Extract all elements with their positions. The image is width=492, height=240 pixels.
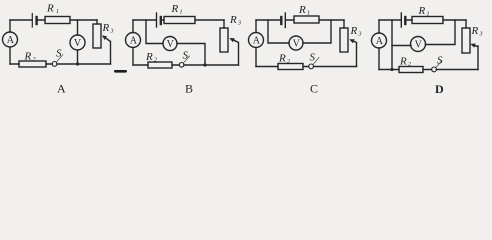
svg-text:S: S: [310, 52, 316, 64]
svg-text:R: R: [145, 51, 153, 63]
switch blade D: [436, 61, 442, 68]
wire right B: [238, 43, 240, 66]
wire right C: [356, 43, 358, 67]
svg-text:S: S: [56, 48, 62, 60]
battery D thick plate: [404, 17, 406, 24]
battery B thick plate: [160, 17, 162, 24]
voltmeter V (A): [70, 35, 85, 50]
wire R3 stub A: [96, 20, 98, 24]
battery A: [31, 14, 33, 28]
ammeter A (C): [249, 33, 264, 48]
wire left A upper: [9, 20, 11, 32]
svg-text:R: R: [46, 3, 54, 15]
svg-text:1: 1: [180, 10, 183, 16]
wire V left branch C: [268, 20, 289, 43]
battery B: [156, 13, 158, 27]
wire bottom C: [256, 66, 357, 68]
wire left D lower: [378, 48, 380, 70]
svg-text:R: R: [418, 5, 426, 17]
svg-text:A: A: [253, 36, 261, 47]
resistor R2 (C): [278, 64, 303, 70]
ammeter A (D): [372, 33, 387, 48]
svg-text:R: R: [102, 22, 110, 34]
svg-text:3: 3: [110, 29, 114, 35]
wire top B: [133, 19, 224, 21]
wire top C: [256, 19, 344, 21]
svg-text:R: R: [399, 56, 407, 68]
rheostat arrow B: [234, 40, 239, 42]
svg-text:2: 2: [287, 59, 290, 65]
rheostat arrow C: [354, 41, 357, 42]
wire bottom A: [10, 63, 111, 65]
voltmeter V (C): [289, 36, 303, 50]
wire bottom B: [133, 64, 239, 66]
svg-text:S: S: [437, 55, 443, 67]
svg-text:R: R: [229, 14, 237, 26]
svg-text:D: D: [435, 82, 444, 96]
wire left C lower: [255, 48, 257, 67]
switch S (A): [52, 62, 57, 67]
ammeter A (B): [126, 33, 141, 48]
switch blade A: [57, 55, 63, 62]
wire left D upper: [378, 20, 380, 33]
resistor R1 (D): [412, 17, 443, 24]
wire V branch top A: [77, 20, 79, 35]
wire V right branch C: [303, 20, 331, 43]
wire bottom D: [379, 69, 478, 71]
svg-text:A: A: [130, 36, 138, 47]
rheostat arrow A: [106, 38, 111, 41]
junction D: [390, 68, 393, 71]
rheostat R3 (B): [220, 28, 228, 52]
battery C thick plate: [280, 17, 282, 24]
wire R3 stub B: [223, 20, 225, 28]
wire V right branch D: [426, 20, 456, 45]
wire V branch bottom A: [77, 50, 79, 64]
resistor R1 (A): [45, 17, 70, 24]
rheostat R3 (C): [340, 28, 348, 52]
rheostat arrow D: [475, 45, 478, 48]
wire right D: [477, 46, 479, 70]
svg-text:3: 3: [237, 21, 241, 27]
battery D: [400, 13, 402, 27]
svg-text:C: C: [310, 82, 318, 96]
wire R3 stub D: [465, 20, 467, 28]
svg-text:2: 2: [154, 58, 157, 64]
junction B: [203, 63, 206, 66]
resistor R2 (D): [399, 67, 423, 73]
junction A: [76, 62, 79, 65]
svg-text:R: R: [298, 4, 306, 16]
svg-text:R: R: [278, 53, 286, 65]
resistor R2 (A): [19, 61, 46, 67]
svg-text:3: 3: [358, 32, 362, 38]
ink smudge between A and B: [114, 70, 127, 73]
svg-text:3: 3: [479, 32, 483, 38]
resistor R2 (B): [148, 62, 172, 68]
svg-text:R: R: [171, 3, 179, 15]
svg-text:R: R: [471, 25, 479, 37]
svg-text:2: 2: [408, 62, 411, 68]
svg-text:A: A: [376, 36, 384, 47]
resistor R1 (C): [294, 16, 319, 23]
svg-text:B: B: [185, 82, 193, 96]
switch S (C): [309, 64, 314, 69]
svg-text:V: V: [167, 39, 175, 50]
voltmeter V (B): [163, 37, 177, 51]
wire top A: [10, 19, 97, 21]
wire left B lower: [132, 48, 134, 66]
switch blade C: [313, 58, 319, 65]
wire right A: [110, 42, 112, 65]
battery C: [284, 13, 286, 28]
wire V left branch D: [392, 45, 411, 47]
switch S (D): [432, 67, 437, 72]
svg-text:2: 2: [33, 57, 36, 63]
svg-text:V: V: [74, 38, 82, 49]
svg-text:R: R: [24, 51, 32, 63]
svg-text:A: A: [57, 82, 66, 96]
switch S (B): [179, 63, 184, 68]
wire V mid vertical D: [391, 20, 393, 70]
wire left A lower: [9, 47, 11, 64]
switch blade B: [184, 56, 190, 63]
rheostat R3 (D): [462, 28, 470, 53]
wire left B upper: [132, 20, 134, 33]
svg-text:1: 1: [307, 11, 310, 17]
svg-text:S: S: [183, 50, 189, 62]
svg-text:1: 1: [56, 9, 59, 15]
battery A thick plate: [35, 17, 37, 24]
resistor R1 (B): [164, 17, 195, 24]
wire R3 stub C: [343, 20, 345, 28]
svg-text:1: 1: [427, 12, 430, 18]
svg-text:R: R: [350, 25, 358, 37]
wire V left branch B: [146, 20, 163, 44]
voltmeter V (D): [411, 37, 426, 52]
wire top D: [379, 19, 466, 21]
wire V right branch B: [177, 44, 205, 66]
rheostat R3 (A): [93, 24, 101, 48]
svg-text:V: V: [293, 39, 301, 50]
ammeter A (A): [3, 32, 18, 47]
svg-text:V: V: [415, 40, 423, 51]
svg-text:A: A: [7, 35, 15, 46]
wire left C upper: [255, 20, 257, 33]
